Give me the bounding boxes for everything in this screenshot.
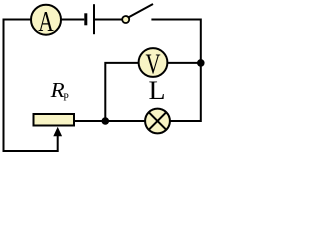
svg-text:L: L xyxy=(149,76,166,105)
svg-text:P: P xyxy=(63,93,69,104)
svg-text:A: A xyxy=(38,6,54,38)
